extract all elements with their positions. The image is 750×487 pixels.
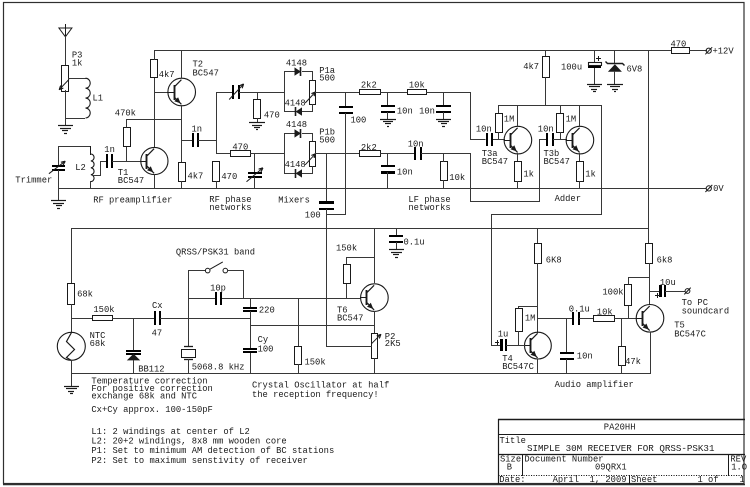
capacitor 1u input bbox=[491, 345, 500, 347]
ground below P3 bbox=[58, 125, 73, 127]
svg-text:Cy: Cy bbox=[258, 335, 269, 345]
capacitor 10n T3a input bbox=[486, 133, 488, 146]
wire lower supply rail bbox=[71, 228, 649, 230]
wire 1k T3a to rail bbox=[517, 181, 519, 189]
svg-text:6k8: 6k8 bbox=[657, 256, 673, 266]
wire P1b output bbox=[315, 153, 360, 155]
wire P1a output bbox=[315, 92, 360, 94]
varicap diode BB112 bbox=[133, 318, 135, 350]
inductor L1 bbox=[86, 78, 91, 118]
svg-text:1n: 1n bbox=[104, 145, 115, 155]
svg-text:Sheet: Sheet bbox=[631, 475, 657, 485]
svg-text:BC547C: BC547C bbox=[502, 362, 534, 372]
svg-text:BC547: BC547 bbox=[544, 157, 570, 167]
resistor 100k bbox=[628, 306, 630, 319]
svg-text:09QRX1: 09QRX1 bbox=[595, 462, 627, 472]
resistor 4k7 T1 collector load bbox=[151, 60, 158, 78]
wire 1k T3b to rail bbox=[579, 181, 581, 189]
capacitor 100u bbox=[594, 50, 596, 63]
svg-text:0.1u: 0.1u bbox=[569, 305, 590, 315]
svg-text:470: 470 bbox=[264, 110, 280, 120]
potentiometer P2 2K5 bbox=[372, 334, 378, 359]
capacitor 10n audio bbox=[566, 318, 568, 353]
switch QRSS/PSK31 bbox=[188, 270, 206, 272]
svg-text:L2: 20+2 windings, 8x8 mm wood: L2: 20+2 windings, 8x8 mm wooden core bbox=[91, 437, 286, 447]
variable capacitor RF phase top bbox=[232, 85, 234, 99]
wire lower 0V rail bbox=[71, 373, 650, 375]
svg-text:1M: 1M bbox=[525, 314, 536, 324]
wire antenna to P3 bbox=[65, 36, 67, 65]
inductor L2 bbox=[90, 146, 92, 155]
svg-text:L2: L2 bbox=[75, 163, 86, 173]
svg-text:1M: 1M bbox=[566, 115, 577, 125]
svg-text:2K5: 2K5 bbox=[385, 339, 401, 349]
wire T2 collector to rail bbox=[181, 51, 183, 78]
svg-text:100: 100 bbox=[351, 116, 367, 126]
svg-text:networks: networks bbox=[209, 203, 251, 213]
wire trimmer to rail bbox=[58, 170, 60, 189]
wire 470 to mixer2 bbox=[250, 153, 285, 155]
svg-text:10p: 10p bbox=[210, 284, 226, 294]
wire T4 out tap bbox=[537, 318, 573, 320]
svg-text:10k: 10k bbox=[409, 80, 425, 90]
svg-text:Title: Title bbox=[500, 436, 526, 446]
svg-text:10n: 10n bbox=[397, 106, 413, 116]
ground below trimmer bbox=[58, 188, 60, 201]
wire 4k7 to +12V rail bbox=[154, 50, 156, 60]
svg-text:1k: 1k bbox=[523, 169, 534, 179]
resistor 470 shunt row2 bbox=[213, 162, 220, 182]
svg-text:April 1, 2009: April 1, 2009 bbox=[553, 475, 627, 485]
wire +12V rail bbox=[154, 50, 672, 52]
resistor 10k shunt row2 bbox=[441, 162, 448, 181]
wire to T3b base bbox=[553, 139, 567, 141]
wire row1 left bbox=[216, 92, 232, 94]
svg-text:1M: 1M bbox=[504, 115, 515, 125]
svg-text:P1: Set to minimum AM detectio: P1: Set to minimum AM detection of BC st… bbox=[91, 446, 334, 456]
svg-text:500: 500 bbox=[319, 74, 335, 84]
resistor 10k audio bbox=[594, 316, 615, 322]
capacitor 220 bbox=[250, 298, 252, 307]
svg-text:1: 1 bbox=[740, 475, 745, 485]
ground below 470 bbox=[257, 118, 259, 123]
svg-text:Audio amplifier: Audio amplifier bbox=[555, 380, 634, 390]
wire T1 emitter to 0V rail bbox=[154, 174, 156, 189]
antenna bbox=[65, 24, 67, 37]
terminal 0V bbox=[706, 186, 711, 191]
svg-text:SIMPLE 30M RECEIVER FOR QRSS-P: SIMPLE 30M RECEIVER FOR QRSS-PSK31 bbox=[527, 443, 715, 454]
wire base row a bbox=[188, 298, 216, 300]
svg-text:6V8: 6V8 bbox=[627, 65, 643, 75]
svg-text:L1: L1 bbox=[93, 93, 104, 103]
svg-text:100: 100 bbox=[305, 210, 321, 220]
capacitor 10n shunt row1 a bbox=[387, 92, 389, 106]
capacitor Cy 100 bbox=[243, 348, 257, 350]
wire injection join bbox=[326, 214, 346, 216]
wire row1 after 10k bbox=[426, 92, 471, 94]
resistor 2k2 row1 bbox=[360, 90, 381, 95]
mixer 2 (4148 diode ring b) bbox=[284, 133, 286, 174]
transistor T4 bbox=[525, 332, 552, 359]
transistor T5 bbox=[636, 305, 664, 333]
svg-text:68k: 68k bbox=[90, 339, 106, 349]
transistor T1 bbox=[141, 147, 168, 174]
svg-text:2k2: 2k2 bbox=[361, 143, 377, 153]
wire tank top bbox=[58, 146, 91, 148]
svg-text:Document Number: Document Number bbox=[524, 454, 603, 464]
svg-text:BC547: BC547 bbox=[118, 176, 144, 186]
resistor 1M T3a bbox=[498, 105, 500, 114]
wire osc main row c bbox=[160, 318, 251, 320]
transistor T3a bbox=[504, 126, 532, 154]
wire row1 after 2k2 bbox=[380, 92, 408, 94]
svg-text:BC547: BC547 bbox=[193, 68, 219, 78]
resistor 1M T3b bbox=[560, 105, 562, 114]
svg-text:4k7: 4k7 bbox=[188, 171, 204, 181]
resistor 2k2 row2 bbox=[360, 151, 381, 157]
svg-text:500: 500 bbox=[319, 135, 335, 145]
transistor T6 bbox=[361, 284, 389, 312]
wire 10k to T5 base bbox=[614, 318, 637, 320]
capacitor 10n shunt row2 bbox=[387, 153, 389, 166]
svg-text:4148: 4148 bbox=[285, 160, 306, 170]
zener diode 6V8 bbox=[614, 50, 616, 64]
svg-text:4148: 4148 bbox=[285, 98, 306, 108]
wire crystal node vertical bbox=[188, 270, 190, 347]
ground below NTC bbox=[71, 373, 73, 386]
capacitor 10n series row2 bbox=[414, 147, 416, 160]
svg-text:100u: 100u bbox=[561, 63, 582, 73]
svg-text:Cx: Cx bbox=[152, 301, 163, 311]
svg-text:47k: 47k bbox=[625, 357, 641, 367]
node T1 base junction / 470k bottom bbox=[126, 147, 128, 161]
wire 1n to T1 base bbox=[112, 161, 141, 163]
svg-text:10n: 10n bbox=[408, 140, 424, 150]
resistor 1M T4 feedback bbox=[519, 307, 538, 309]
resistor 150k collector feedback bbox=[346, 284, 348, 298]
wire varcap1 to mixer1 bbox=[239, 92, 285, 94]
svg-text:BC547: BC547 bbox=[337, 314, 363, 324]
capacitor 10n shunt row1 b bbox=[443, 92, 445, 106]
svg-text:2k2: 2k2 bbox=[361, 81, 377, 91]
svg-text:150k: 150k bbox=[336, 244, 357, 254]
svg-text:1u: 1u bbox=[498, 329, 509, 339]
svg-text:10n: 10n bbox=[538, 125, 554, 135]
resistor 4k7 adder supply bbox=[545, 50, 547, 57]
resistor 470 supply bbox=[672, 48, 690, 54]
wire row2 after 2k2 bbox=[380, 153, 415, 155]
wire emitter feedback line bbox=[250, 325, 375, 327]
wire osc main row b bbox=[112, 318, 155, 320]
wire T3b collector bbox=[579, 106, 581, 126]
wire T1 collector bbox=[154, 93, 156, 147]
wire NTC to rail bbox=[71, 360, 73, 374]
svg-text:RF preamplifier: RF preamplifier bbox=[93, 195, 172, 205]
wire osc main row a bbox=[71, 318, 93, 320]
svg-text:150k: 150k bbox=[305, 357, 326, 367]
svg-text:100: 100 bbox=[258, 345, 274, 355]
wire T2 base bbox=[154, 92, 168, 94]
svg-text:0.1u: 0.1u bbox=[404, 237, 425, 247]
wire 4k7 bottom to T2 base node bbox=[154, 77, 156, 93]
svg-text:5068.8 kHz: 5068.8 kHz bbox=[192, 363, 245, 373]
wire row2 reroute to T3b bbox=[471, 140, 547, 202]
wire L2 bottom to rail bbox=[90, 181, 92, 189]
capacitor Cx 47 bbox=[154, 311, 156, 325]
wire T3a collector bbox=[517, 106, 519, 126]
wire 470 to terminal bbox=[689, 50, 707, 52]
svg-text:4148: 4148 bbox=[286, 58, 307, 68]
wire 0.1u to 10k bbox=[579, 318, 594, 320]
resistor 4k7 T2 emitter bbox=[179, 163, 186, 182]
svg-text:470: 470 bbox=[221, 172, 237, 182]
svg-text:Cx+Cy approx. 100-150pF: Cx+Cy approx. 100-150pF bbox=[91, 405, 212, 415]
capacitor 0.1u coupling bbox=[572, 312, 574, 325]
svg-text:+12V: +12V bbox=[713, 47, 735, 57]
terminal to PC bbox=[685, 289, 690, 294]
wire 470 row2 to rail bbox=[216, 181, 218, 189]
svg-text:BC547: BC547 bbox=[482, 157, 508, 167]
thermistor NTC 68k bbox=[57, 332, 85, 360]
crystal 5068.8 kHz bbox=[184, 346, 193, 348]
svg-text:Trimmer: Trimmer bbox=[15, 176, 52, 186]
svg-text:10k: 10k bbox=[597, 307, 613, 317]
wire T2 emitter to 1n bbox=[181, 140, 192, 142]
svg-text:10k: 10k bbox=[449, 173, 465, 183]
svg-text:Mixers: Mixers bbox=[278, 195, 310, 205]
terminal +12V bbox=[706, 48, 711, 53]
wire main feed down bbox=[648, 50, 650, 244]
resistor 470 series row2 bbox=[231, 151, 251, 157]
svg-text:100k: 100k bbox=[602, 288, 623, 298]
capacitor 10p bbox=[215, 292, 217, 305]
wire adder collector rail bbox=[498, 105, 602, 107]
wire T2 emitter down bbox=[181, 105, 183, 163]
wire 0V rail bbox=[58, 188, 706, 190]
svg-text:6K8: 6K8 bbox=[546, 256, 562, 266]
wire T3b emitter bbox=[579, 153, 581, 162]
wire row2 after 10n bbox=[421, 153, 471, 155]
wire 470 shunt stub bbox=[257, 92, 259, 100]
capacitor 10u output bbox=[649, 291, 659, 293]
svg-text:P2: Set to maximum senstivity: P2: Set to maximum senstivity of receive… bbox=[91, 456, 307, 466]
svg-text:QRSS/PSK31 band: QRSS/PSK31 band bbox=[176, 247, 255, 257]
resistor 150k osc series bbox=[93, 316, 113, 321]
capacitor 1n coupling bbox=[192, 133, 194, 147]
resistor 470k bbox=[124, 128, 131, 147]
svg-text:1 of: 1 of bbox=[698, 475, 719, 485]
wire 4k7 emitter to rail bbox=[181, 181, 183, 189]
svg-text:10n: 10n bbox=[476, 125, 492, 135]
svg-text:1.O: 1.O bbox=[731, 462, 747, 472]
trimmer capacitor bbox=[52, 165, 65, 167]
resistor 1k T3b bbox=[577, 162, 584, 182]
resistor 6k8 T5 bbox=[646, 244, 653, 264]
svg-text:68k: 68k bbox=[77, 290, 93, 300]
svg-text:BC547C: BC547C bbox=[674, 330, 706, 340]
svg-text:Date:: Date: bbox=[499, 475, 525, 485]
svg-text:150k: 150k bbox=[93, 305, 114, 315]
wire P3 wiper to L1 top bbox=[68, 78, 86, 80]
wire to T3a base bbox=[493, 139, 505, 141]
resistor 47k bbox=[621, 318, 623, 347]
wire base row b bbox=[222, 298, 361, 300]
svg-text:1n: 1n bbox=[192, 125, 203, 135]
wire row2 left bbox=[216, 153, 231, 155]
wire 470k top to T2 emitter line bbox=[127, 120, 182, 128]
resistor 150k base bias lower bbox=[298, 298, 300, 347]
wire L2 tap bbox=[93, 162, 107, 176]
svg-text:soundcard: soundcard bbox=[682, 307, 730, 317]
svg-text:470: 470 bbox=[671, 39, 687, 49]
svg-text:the reception frequency!: the reception frequency! bbox=[252, 390, 379, 400]
svg-text:L1: 2 windings at center of L2: L1: 2 windings at center of L2 bbox=[91, 427, 249, 437]
title block frame bbox=[498, 419, 745, 421]
svg-text:4k7: 4k7 bbox=[159, 70, 175, 80]
svg-text:470: 470 bbox=[232, 142, 248, 152]
wire 10k row2 to rail bbox=[443, 153, 445, 162]
svg-text:4k7: 4k7 bbox=[523, 62, 539, 72]
wire T3a emitter bbox=[517, 153, 519, 162]
capacitor 100 lower injection bbox=[326, 153, 328, 203]
variable capacitor RF phase bottom bbox=[254, 153, 256, 172]
resistor 1k T3a bbox=[515, 162, 522, 182]
title block dotted line bbox=[499, 475, 745, 477]
wire L1 bottom bbox=[66, 118, 85, 120]
capacitor 10n T3b input bbox=[546, 133, 548, 146]
wire T5 emitter bbox=[650, 332, 652, 374]
transistor T2 bbox=[168, 78, 196, 106]
svg-text:10u: 10u bbox=[660, 278, 676, 288]
svg-text:1k: 1k bbox=[72, 59, 83, 69]
svg-text:470k: 470k bbox=[115, 108, 136, 118]
svg-text:10n: 10n bbox=[419, 106, 435, 116]
resistor 6K8 T4 bbox=[537, 228, 539, 244]
wire node vertical x216 bbox=[216, 92, 218, 154]
title block row lines bbox=[498, 434, 745, 436]
wire row1 to T3a input bbox=[471, 93, 486, 140]
svg-text:4148: 4148 bbox=[286, 120, 307, 130]
capacitor 100 upper injection bbox=[345, 92, 347, 107]
resistor 470 shunt row1 bbox=[254, 100, 261, 119]
svg-text:10n: 10n bbox=[397, 168, 413, 178]
svg-text:47: 47 bbox=[152, 329, 163, 339]
wire P3 to ground bbox=[65, 90, 67, 126]
capacitor 0.1u decoupling bbox=[396, 228, 398, 236]
resistor 10k row1 bbox=[408, 90, 427, 95]
svg-text:10n: 10n bbox=[577, 352, 593, 362]
svg-text:1k: 1k bbox=[585, 169, 596, 179]
transistor T3b bbox=[566, 126, 594, 154]
wire T6 collector bbox=[374, 229, 376, 283]
mixer 1 (4148 diode ring a) bbox=[284, 71, 286, 112]
wire T4 emitter bbox=[537, 359, 539, 374]
resistor 68k bbox=[71, 228, 73, 284]
wire adder output bbox=[492, 106, 602, 346]
wire 1n to node bbox=[198, 140, 217, 142]
title block column lines bbox=[522, 454, 524, 476]
svg-text:networks: networks bbox=[408, 203, 450, 213]
wire T6 emitter bbox=[374, 311, 376, 334]
svg-text:0V: 0V bbox=[713, 184, 724, 194]
potentiometer P3 bbox=[62, 66, 69, 92]
svg-text:220: 220 bbox=[259, 305, 275, 315]
svg-text:PA20HH: PA20HH bbox=[604, 423, 636, 433]
capacitor C 1n input bbox=[106, 154, 108, 168]
svg-text:exchange 68k and NTC: exchange 68k and NTC bbox=[91, 391, 197, 401]
svg-text:B: B bbox=[507, 462, 512, 472]
wire LO takeoff bbox=[326, 346, 372, 348]
svg-text:Adder: Adder bbox=[555, 194, 581, 204]
